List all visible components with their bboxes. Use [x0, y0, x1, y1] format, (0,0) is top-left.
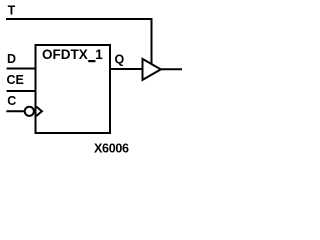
- svg-text:CE: CE: [7, 73, 24, 87]
- svg-text:D: D: [7, 52, 16, 66]
- svg-text:Q: Q: [115, 52, 125, 66]
- svg-text:T: T: [8, 3, 16, 17]
- svg-text:C: C: [7, 94, 16, 108]
- svg-text:X6006: X6006: [94, 142, 129, 156]
- svg-text:OFDTX_1: OFDTX_1: [42, 47, 103, 62]
